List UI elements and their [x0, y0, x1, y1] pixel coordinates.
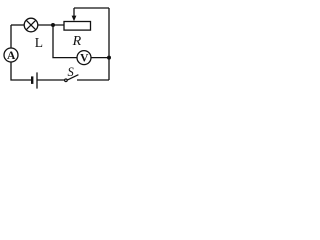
battery short plate — [31, 76, 33, 84]
wire top-left corner to lamp — [11, 24, 24, 26]
wire lamp to junction to rheostat — [38, 24, 64, 26]
ammeter A — [4, 48, 18, 62]
voltmeter V — [77, 51, 91, 65]
wire left vertical (bottom) — [11, 62, 32, 80]
svg-text:V: V — [80, 53, 89, 65]
battery long plate — [36, 72, 38, 88]
wire right vertical — [108, 8, 110, 80]
svg-text:S: S — [68, 65, 75, 79]
svg-text:A: A — [7, 50, 16, 62]
svg-text:L: L — [35, 35, 43, 50]
switch pivot — [65, 79, 68, 82]
rheostat arrow head — [72, 16, 77, 22]
junction node at lamp/voltmeter tap — [51, 23, 55, 27]
wire top (slider to corner) — [74, 7, 109, 9]
wire voltmeter to right junction — [91, 57, 109, 59]
wire bottom right from switch — [77, 79, 109, 81]
lamp L — [24, 18, 38, 32]
wire voltmeter branch — [53, 25, 77, 58]
junction node at right wire / voltmeter — [107, 56, 111, 60]
switch lever — [67, 75, 78, 81]
rheostat R body — [64, 22, 91, 31]
wire left vertical (top) — [10, 25, 12, 48]
rheostat slider stem — [73, 8, 75, 17]
svg-text:R: R — [72, 34, 82, 49]
wire battery to switch — [37, 79, 65, 81]
